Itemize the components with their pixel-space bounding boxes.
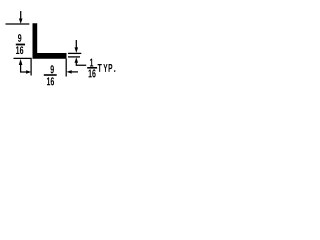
dimension arrow down (thickness 1/16 top) [75,40,79,53]
extension line bottom-left corner (vertical+horizontal dims) [14,58,32,75]
text 9/16 (horizontal leg dimension) [44,65,57,85]
extension line top (vertical dim) [6,23,30,25]
extension line right (horizontal dim) [65,59,67,77]
text 1/16 (thickness dimension) [87,59,97,78]
dimension arrow up + leader to text (thickness 1/16 bottom) [75,57,87,65]
extension line thickness bottom [68,56,80,58]
dimension arrow down (top of vertical 9/16) [19,11,23,24]
dimension arrow up + bend + arrow right (bottom of vertical 9/16 / left of horizontal 9/16) [19,59,32,74]
text 9/16 (vertical leg dimension) [16,34,25,54]
dimension arrow left (right of horizontal 9/16) [67,70,79,74]
text TYP. [98,64,116,72]
angle profile (L cross-section) [33,23,67,58]
extension line thickness top [68,52,81,54]
